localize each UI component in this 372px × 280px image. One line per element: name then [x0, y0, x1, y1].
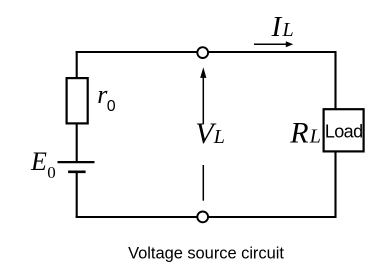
- svg-text:0: 0: [107, 98, 116, 115]
- arrow IL (current direction): [254, 41, 293, 47]
- wire left vertical middle (resistor to battery): [76, 125, 78, 163]
- node bottom (open circle): [197, 212, 208, 223]
- svg-text:Load: Load: [325, 122, 363, 142]
- label VL: [195, 117, 225, 150]
- battery E0 long plate: [58, 161, 95, 163]
- battery E0 short plate: [68, 170, 86, 173]
- wire left vertical upper (top wire to resistor): [76, 51, 78, 78]
- node top (open circle): [197, 47, 208, 58]
- svg-text:E: E: [30, 147, 47, 176]
- svg-text:R: R: [289, 117, 308, 150]
- svg-text:L: L: [213, 126, 225, 148]
- label E0: [30, 147, 56, 182]
- wire bottom horizontal: [76, 216, 337, 218]
- wire right vertical upper (top wire to load): [334, 51, 336, 109]
- arrow VL (upward, shaft + head): [200, 67, 206, 123]
- resistor r0 body: [67, 78, 88, 123]
- wire VL lower segment: [202, 165, 204, 201]
- label r0: [97, 80, 116, 115]
- svg-text:L: L: [282, 19, 294, 41]
- svg-text:0: 0: [47, 163, 56, 182]
- svg-text:L: L: [309, 126, 321, 148]
- load box RL: [324, 109, 364, 151]
- svg-text:I: I: [271, 11, 283, 43]
- wire left vertical lower (battery to bottom wire): [76, 173, 78, 218]
- wire right vertical lower (load to bottom wire): [334, 153, 336, 219]
- wire top horizontal: [76, 51, 337, 53]
- label RL: [289, 117, 321, 150]
- svg-text:Voltage source circuit: Voltage source circuit: [128, 245, 284, 263]
- label IL: [271, 11, 294, 43]
